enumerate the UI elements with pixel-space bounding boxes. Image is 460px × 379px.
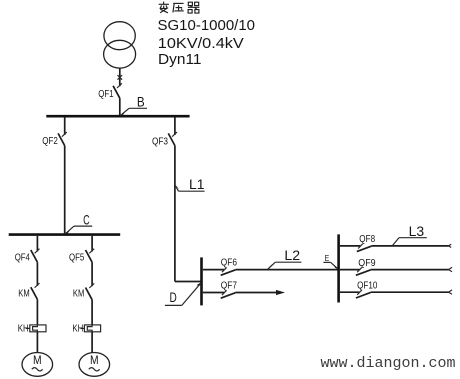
svg-text:KH: KH — [72, 323, 83, 335]
breaker QF6 — [203, 257, 237, 276]
breaker QF9 — [340, 257, 376, 275]
node B label — [120, 93, 147, 116]
svg-text:QF4: QF4 — [15, 252, 30, 264]
breaker QF1 — [98, 75, 122, 100]
wire QF1 to bus B — [119, 98, 121, 116]
breaker QF8 — [340, 233, 375, 252]
motor M2 — [79, 353, 110, 377]
thermal relay KH (left) — [18, 323, 46, 335]
svg-text:QF10: QF10 — [357, 280, 377, 292]
transformer T1 — [104, 22, 136, 68]
wire KH to motor M1 — [36, 332, 38, 353]
wire QF3 down line L1 — [174, 146, 176, 282]
bus B — [46, 115, 189, 118]
wire QF10 feeder with end tick — [371, 290, 452, 294]
wire QF4 to KM — [36, 262, 38, 286]
svg-text:QF1: QF1 — [98, 88, 114, 100]
svg-text:QF5: QF5 — [69, 252, 84, 264]
svg-text:Dyn11: Dyn11 — [158, 51, 202, 68]
wire QF8 feeder with end tick — [372, 244, 452, 247]
breaker QF5 — [69, 236, 94, 264]
wire QF6 to bus E — [236, 269, 339, 271]
svg-text:B: B — [137, 93, 145, 109]
svg-text:QF6: QF6 — [221, 257, 237, 269]
svg-text:L3: L3 — [409, 223, 425, 239]
svg-text:KM: KM — [18, 288, 29, 300]
bus D — [200, 257, 203, 305]
breaker QF2 — [42, 117, 67, 147]
breaker QF7 — [203, 279, 237, 298]
svg-text:E: E — [325, 253, 330, 263]
wire transformer to QF1 — [119, 68, 121, 86]
node E label — [323, 253, 338, 269]
contactor KM (left) — [18, 283, 39, 299]
motor M1 — [22, 353, 53, 377]
wire KH to motor M2 — [91, 332, 93, 353]
wire QF9 feeder with end tick — [371, 267, 452, 271]
svg-text:L2: L2 — [284, 247, 300, 263]
svg-text:QF2: QF2 — [42, 135, 58, 147]
wire QF5 to KM — [91, 262, 93, 286]
breaker QF10 — [340, 280, 378, 298]
contactor KM (right) — [73, 283, 94, 299]
thermal relay KH (right) — [72, 323, 100, 335]
svg-text:D: D — [170, 289, 177, 305]
svg-text:QF8: QF8 — [359, 233, 375, 245]
node L2 label — [266, 247, 301, 270]
node C label — [65, 211, 92, 234]
svg-text:QF3: QF3 — [152, 135, 168, 147]
svg-text:www.diangon.com: www.diangon.com — [321, 354, 456, 372]
wire QF2 to bus C — [64, 146, 66, 234]
node L1 label — [175, 176, 205, 192]
node L3 label — [391, 223, 426, 246]
svg-text:10KV/0.4kV: 10KV/0.4kV — [158, 35, 244, 52]
svg-text:KH: KH — [18, 323, 29, 335]
svg-text:SG10-1000/10: SG10-1000/10 — [158, 17, 256, 34]
svg-text:M: M — [33, 355, 42, 367]
svg-text:QF9: QF9 — [358, 257, 375, 269]
node D label — [165, 282, 202, 306]
breaker QF3 — [152, 117, 177, 147]
svg-text:C: C — [83, 211, 90, 227]
svg-text:L1: L1 — [189, 176, 205, 192]
wire KM to KH — [91, 300, 93, 325]
bus E — [337, 234, 340, 302]
breaker QF4 — [15, 236, 40, 264]
svg-text:KM: KM — [73, 288, 84, 300]
label 变压器 (hand-drawn strokes) — [159, 2, 200, 14]
bus C — [9, 233, 121, 236]
wire KM to KH — [36, 299, 38, 325]
wire QF7 with arrow end — [236, 290, 286, 295]
svg-text:QF7: QF7 — [221, 279, 237, 291]
svg-text:M: M — [90, 355, 99, 367]
wire L1 corner to bus D — [175, 281, 202, 283]
